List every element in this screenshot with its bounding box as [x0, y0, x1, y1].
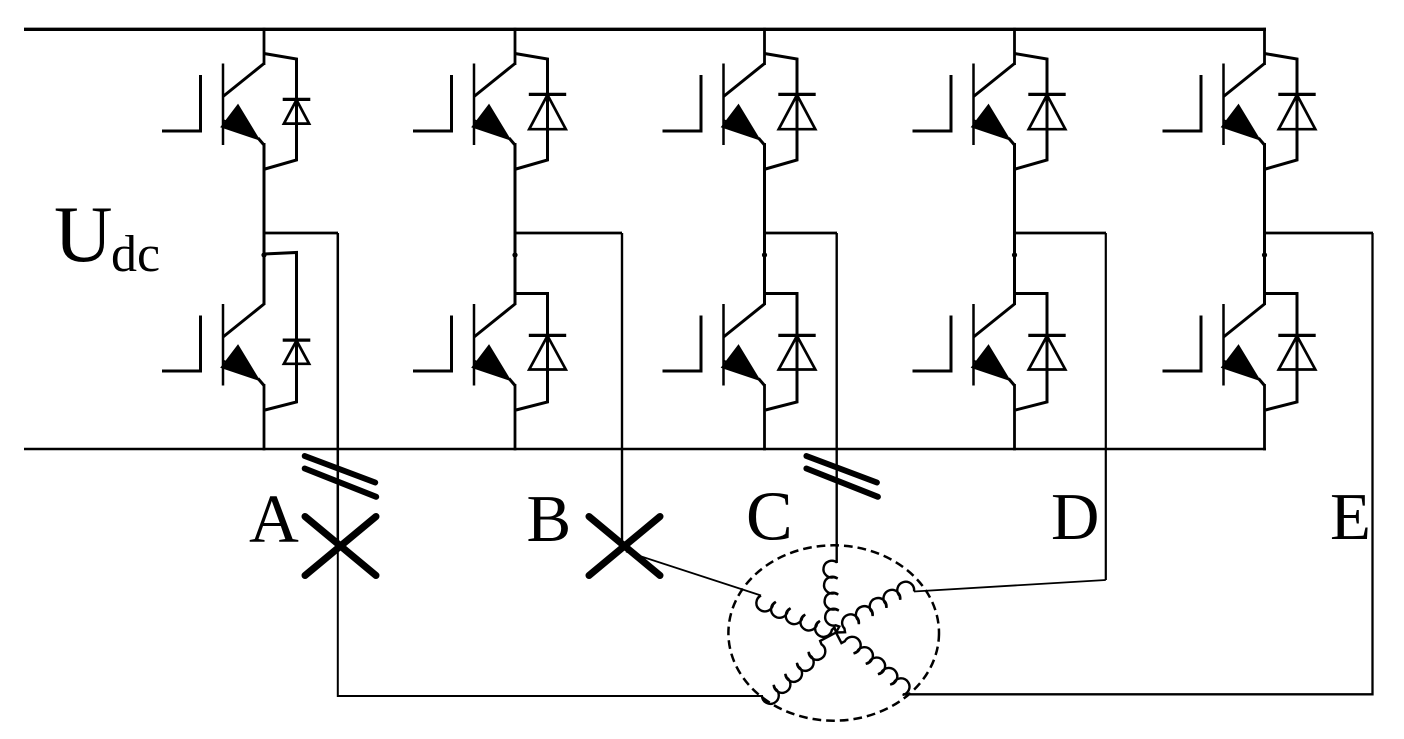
- svg-text:B: B: [527, 482, 572, 556]
- svg-text:D: D: [1051, 480, 1099, 554]
- svg-text:E: E: [1330, 480, 1371, 554]
- svg-text:U: U: [54, 189, 113, 279]
- svg-text:C: C: [746, 479, 793, 556]
- svg-text:A: A: [249, 481, 299, 557]
- svg-text:dc: dc: [111, 226, 160, 283]
